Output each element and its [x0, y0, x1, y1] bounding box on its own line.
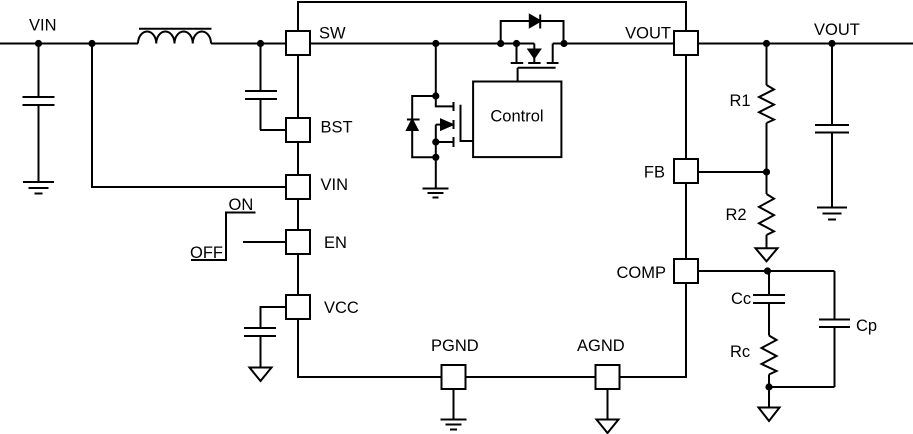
- ground C_IN: [23, 182, 54, 194]
- node VOUT Cout: [828, 40, 835, 47]
- pin VIN: [286, 175, 310, 199]
- IC U1 outline: [298, 2, 686, 377]
- svg-text:Control: Control: [490, 108, 543, 126]
- wire comp bottom: [769, 386, 835, 388]
- svg-text:VOUT: VOUT: [814, 21, 860, 39]
- svg-text:Rc: Rc: [730, 343, 750, 361]
- ground M2 source: [423, 158, 449, 198]
- capacitor Cc: [753, 271, 785, 336]
- node D1 anode: [497, 40, 504, 47]
- ground triangle comp: [759, 387, 780, 421]
- node COMP: [764, 267, 771, 274]
- node M1 left: [513, 40, 520, 47]
- wire BST cap to BST pin: [260, 129, 298, 131]
- svg-text:Cp: Cp: [856, 317, 877, 335]
- svg-text:VOUT: VOUT: [625, 25, 671, 43]
- wire PGND to ground: [453, 389, 455, 419]
- node VIN branch: [88, 40, 95, 47]
- pin PGND: [442, 365, 466, 389]
- body diode D2: [407, 96, 436, 157]
- transistor M2 low-side: [436, 96, 473, 157]
- capacitor C_VCC: [244, 328, 276, 368]
- capacitor C_OUT: [815, 44, 849, 208]
- capacitor C_IN: [23, 44, 55, 182]
- ground triangle R2: [756, 248, 778, 261]
- resistor Rc: [762, 336, 777, 388]
- wire VIN input rail: [0, 43, 138, 45]
- capacitor Cp: [819, 271, 850, 387]
- svg-text:AGND: AGND: [577, 337, 625, 355]
- node comp bottom: [765, 383, 772, 390]
- svg-text:COMP: COMP: [617, 264, 667, 282]
- svg-text:PGND: PGND: [431, 337, 479, 355]
- pin COMP: [674, 259, 698, 283]
- node VOUT R1: [763, 40, 770, 47]
- node FB divider: [763, 168, 770, 175]
- node VIN input: [35, 40, 42, 47]
- svg-text:SW: SW: [319, 25, 346, 43]
- node M2 drain: [432, 92, 439, 99]
- svg-text:ON: ON: [229, 196, 254, 214]
- node M2 source lead: [432, 138, 439, 145]
- wire AGND to ground: [607, 389, 609, 420]
- node SW internal: [432, 40, 439, 47]
- wire VOUT rail: [553, 43, 913, 45]
- diode D1 top bypass: [501, 15, 564, 44]
- ground C_OUT: [817, 208, 847, 220]
- pin EN: [286, 230, 310, 254]
- wire FB to divider: [698, 171, 767, 173]
- inductor L1: [138, 29, 212, 44]
- node M2 source bottom: [432, 154, 439, 161]
- pin SW: [286, 31, 310, 55]
- svg-text:FB: FB: [644, 164, 665, 182]
- pin FB: [674, 159, 698, 183]
- wire COMP node: [698, 270, 835, 272]
- resistor R1: [759, 44, 774, 173]
- node BST cap: [257, 40, 264, 47]
- pin BST: [286, 118, 310, 142]
- wire VIN to VIN pin: [92, 44, 298, 188]
- pin AGND: [596, 365, 620, 389]
- svg-text:VIN: VIN: [321, 176, 349, 194]
- svg-text:VIN: VIN: [29, 17, 57, 35]
- transistor M1 high-side: [511, 44, 559, 82]
- ground triangle C_VCC: [250, 368, 272, 382]
- svg-text:R2: R2: [726, 206, 747, 224]
- wire inductor to SW pin: [211, 43, 534, 45]
- wire SW internal node down to M2: [435, 44, 437, 97]
- ground triangle AGND: [597, 420, 619, 434]
- svg-text:R1: R1: [730, 92, 751, 110]
- svg-text:OFF: OFF: [190, 244, 223, 262]
- pin VOUT: [674, 31, 698, 55]
- ground PGND: [441, 420, 467, 430]
- pin VCC: [286, 295, 310, 319]
- control block: [473, 82, 561, 158]
- node D1 cathode: [560, 40, 567, 47]
- EN on-off step symbol: [191, 213, 256, 261]
- svg-text:Cc: Cc: [731, 290, 751, 308]
- resistor R2: [759, 172, 774, 248]
- wire VCC to C_VCC: [261, 307, 299, 328]
- capacitor C_BST: [245, 44, 277, 131]
- svg-text:VCC: VCC: [324, 299, 359, 317]
- svg-text:EN: EN: [324, 234, 347, 252]
- svg-text:BST: BST: [321, 119, 353, 137]
- wire EN stub: [243, 241, 298, 243]
